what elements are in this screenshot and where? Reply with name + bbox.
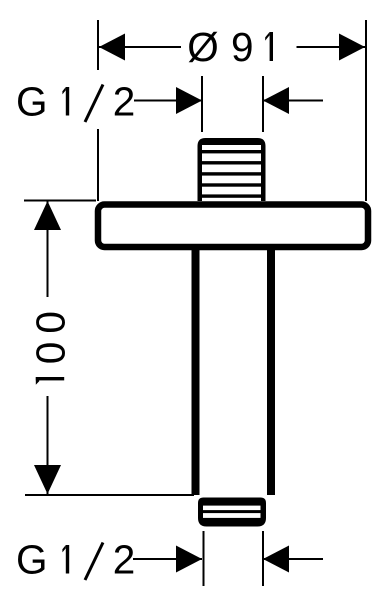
dimension 100 down arrow <box>34 465 61 494</box>
bottom G1/2 right arrow tail <box>263 558 323 560</box>
thread stripe 4 <box>202 183 261 186</box>
thread stripe 1 <box>202 150 261 153</box>
top G1/2 left arrow tail <box>134 100 203 102</box>
bottom thread white stripe 2 <box>203 513 261 518</box>
bottom G1/2 left arrow <box>176 546 202 573</box>
top G1/2 left extension line <box>201 76 203 132</box>
thread stripe 3 <box>202 172 261 175</box>
svg-text:2: 2 <box>113 79 136 125</box>
svg-text:G: G <box>16 537 48 583</box>
dimension Ø91 left extension line lower segment <box>97 129 99 201</box>
dimension Ø91 right arrow <box>339 34 365 61</box>
dimension Ø91 left extension line upper segment <box>97 20 99 70</box>
bottom G1/2 left extension line <box>203 531 205 586</box>
dimension Ø91 line right segment <box>297 46 366 48</box>
thread stripe 2 <box>202 161 261 164</box>
svg-text:00: 00 <box>28 303 74 364</box>
bottom thread G1/2 body <box>198 498 266 527</box>
top G1/2 right extension line <box>262 76 264 132</box>
label G 1/2 bottom <box>16 537 135 583</box>
top G1/2 left arrow <box>176 87 202 114</box>
bottom G1/2 right extension line <box>262 531 264 586</box>
bottom thread white stripe 1 <box>203 506 261 511</box>
dimension label Ø 91 <box>187 24 273 70</box>
pipe left wall <box>192 249 200 495</box>
top G1/2 right arrow tail <box>263 100 323 102</box>
dimension Ø91 right extension line <box>365 20 367 201</box>
pipe right wall <box>267 249 275 495</box>
top thread G1/2 body <box>198 138 266 201</box>
dimension Ø91 line left segment <box>99 46 181 48</box>
bottom G1/2 right arrow <box>263 546 289 573</box>
dimension 100 top extension line <box>24 200 96 202</box>
svg-text:Ø: Ø <box>187 24 219 70</box>
dimension 100 up arrow <box>34 201 61 230</box>
svg-text:2: 2 <box>113 537 136 583</box>
top G1/2 right arrow <box>263 87 289 114</box>
flange (ceiling escutcheon plate) <box>98 205 368 248</box>
dimension 100 bottom extension line <box>25 494 194 496</box>
top thread inner white <box>202 145 261 201</box>
svg-text:9: 9 <box>231 24 254 70</box>
bottom G1/2 left arrow tail <box>133 558 202 560</box>
dimension 100 line upper segment <box>47 201 49 297</box>
svg-text:G: G <box>16 79 48 125</box>
label G 1/2 top <box>16 79 135 125</box>
thread stripe 5 <box>202 194 261 197</box>
dimension Ø91 left arrow <box>99 34 125 61</box>
dimension label 100 (rotated) <box>28 303 74 385</box>
dimension 100 line lower segment <box>47 396 49 494</box>
